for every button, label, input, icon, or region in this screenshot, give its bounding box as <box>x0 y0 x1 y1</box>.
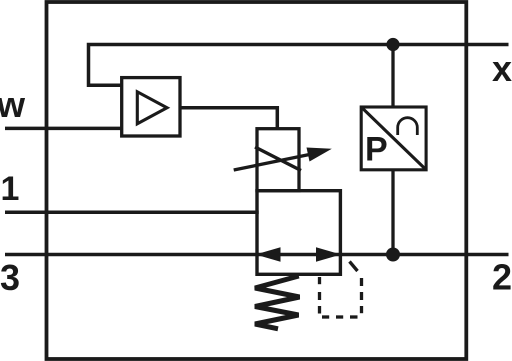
svg-text:x: x <box>492 48 512 89</box>
svg-text:3: 3 <box>0 257 20 298</box>
svg-text:P: P <box>365 131 388 169</box>
svg-text:2: 2 <box>492 257 512 298</box>
svg-text:1: 1 <box>1 170 20 208</box>
svg-text:w: w <box>0 84 26 125</box>
